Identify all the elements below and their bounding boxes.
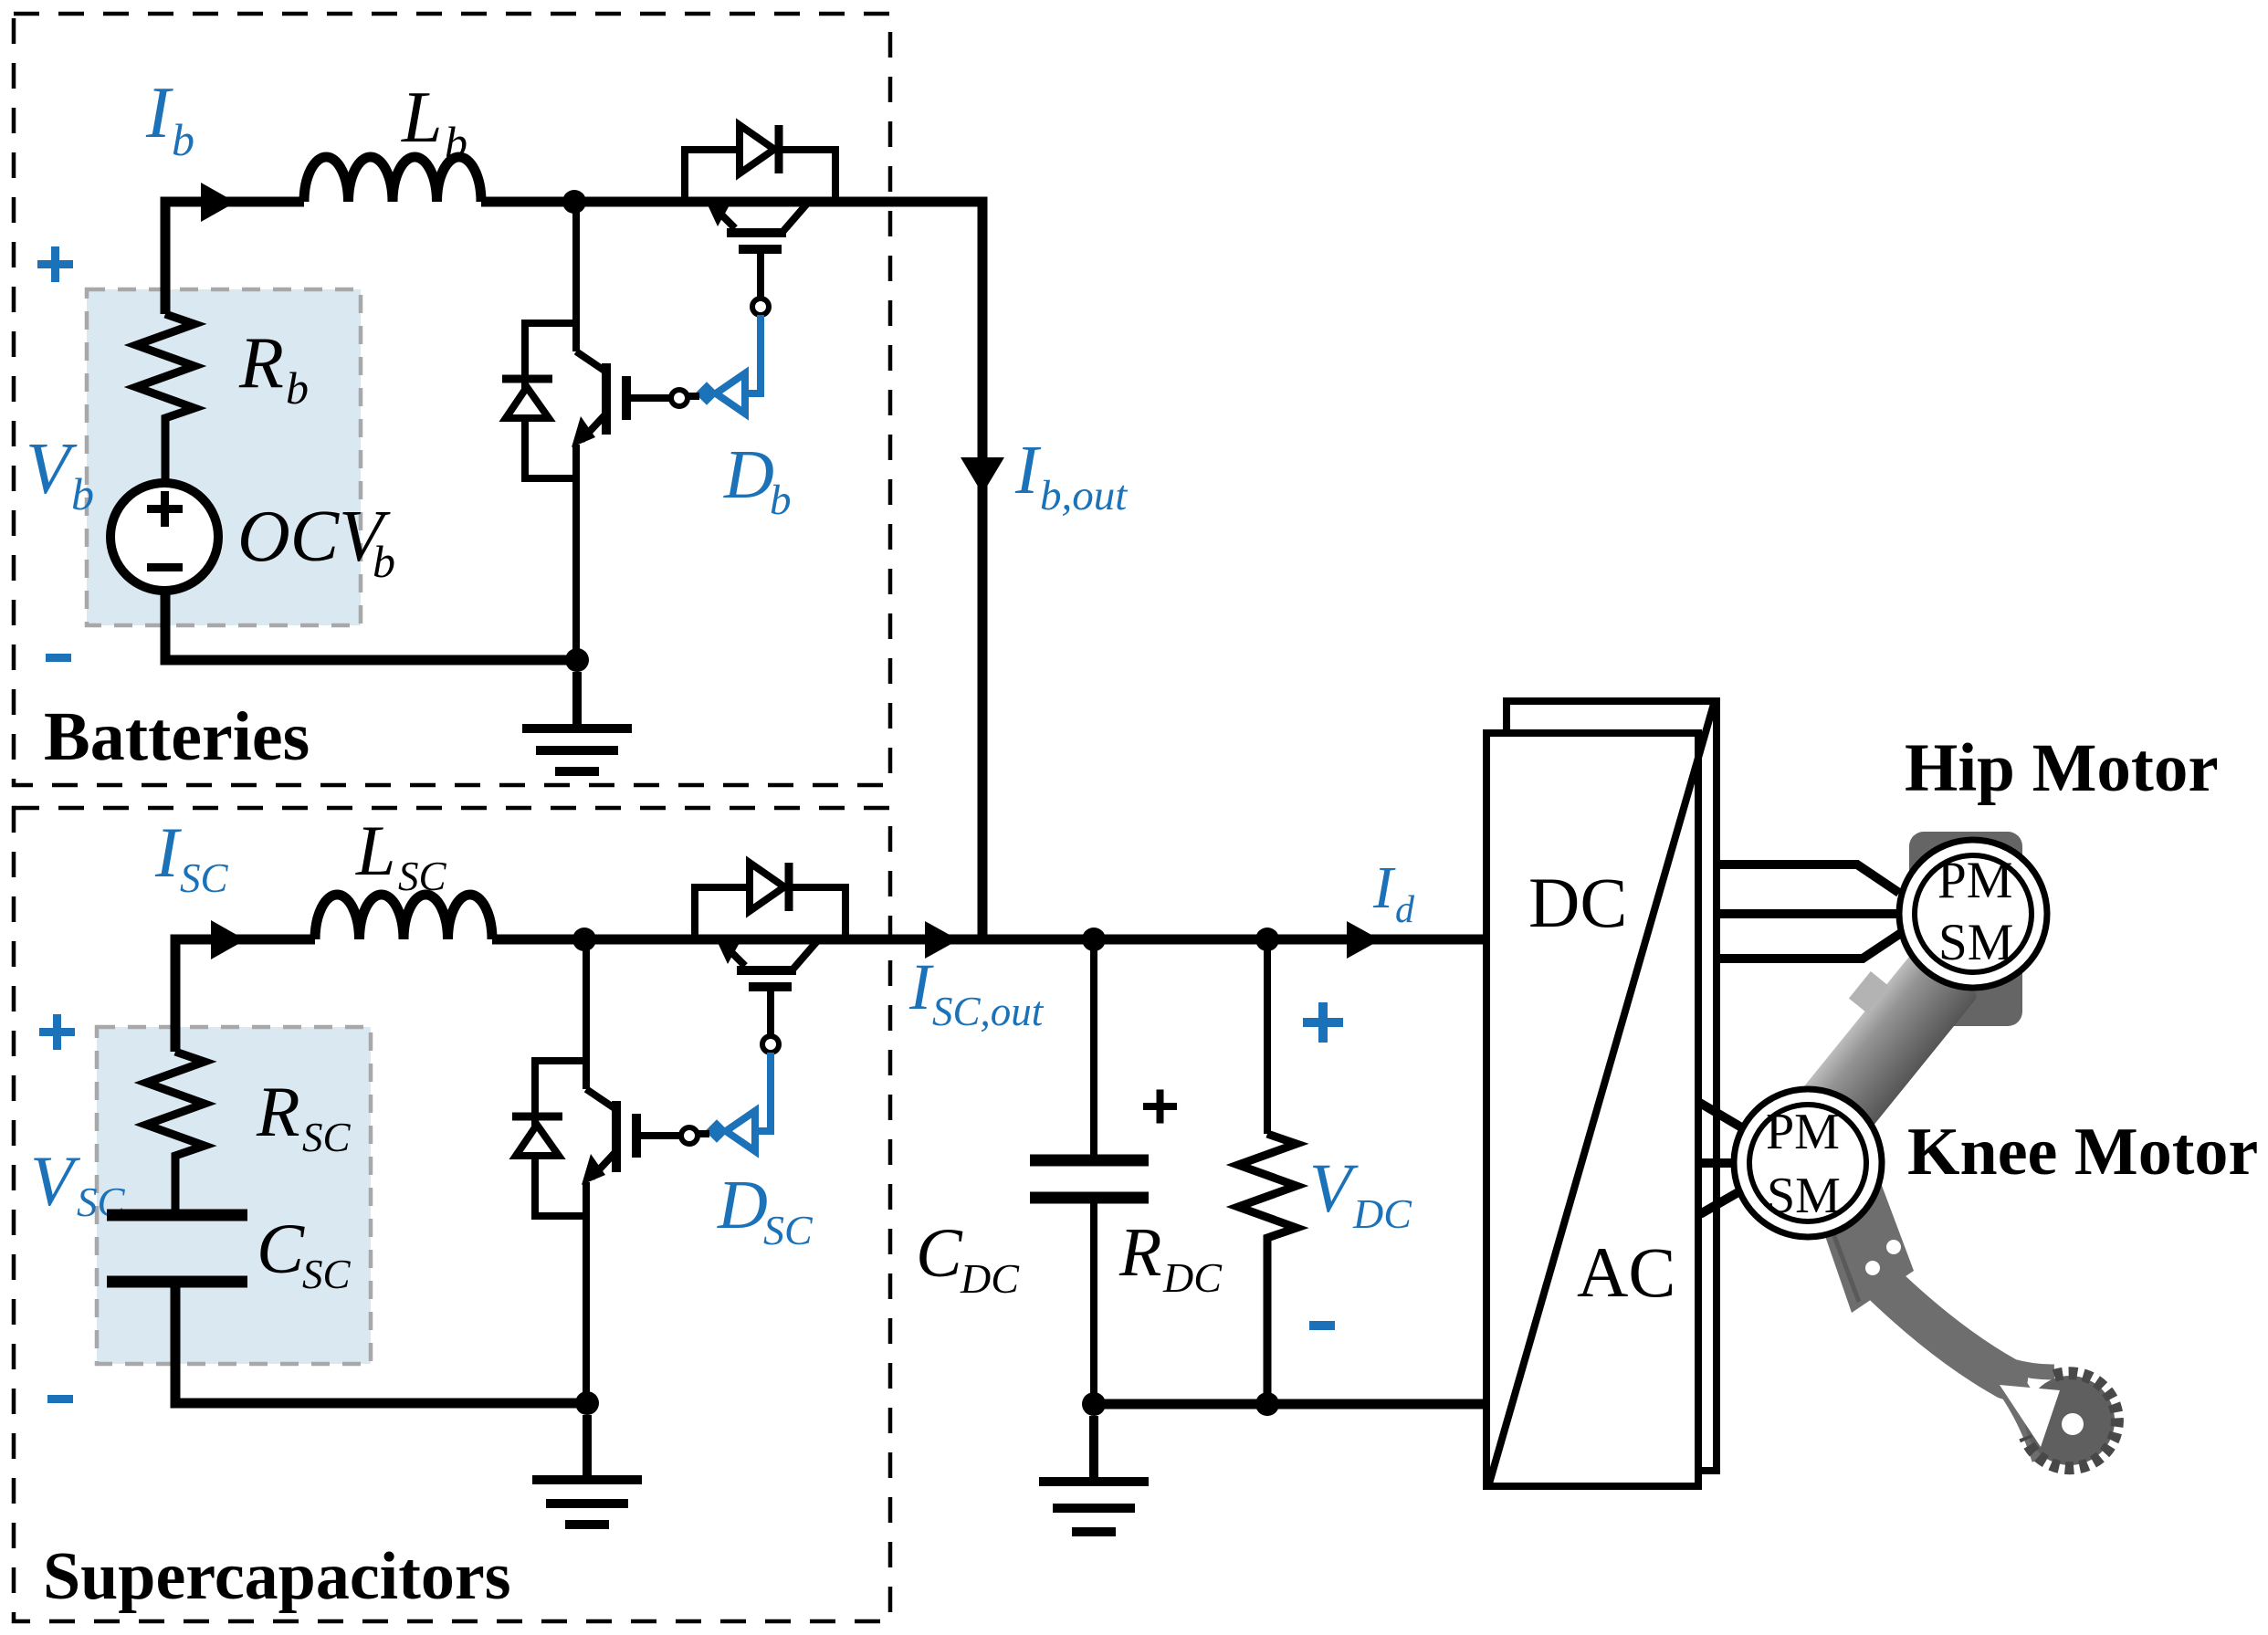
svg-text:C: C: [257, 1209, 305, 1288]
wire inverter to hip phase C: [1717, 933, 1901, 959]
SECTION: motors: [1698, 730, 2258, 1468]
wire supercap left and top: [175, 939, 315, 1052]
svg-text:b: b: [71, 468, 94, 519]
SECTION: supercapacitors: [14, 808, 890, 1621]
wire bus to R_DC: [1264, 939, 1271, 1134]
svg-text:b: b: [445, 117, 467, 168]
inductor L_SC: [315, 895, 492, 939]
shank seam: [1826, 1214, 1859, 1302]
svg-text:V: V: [1309, 1150, 1359, 1227]
svg-text:b: b: [770, 477, 792, 524]
arrow I_b,out: [961, 457, 1004, 494]
svg-text:SC,out: SC,out: [932, 989, 1045, 1034]
svg-text:SM: SM: [1767, 1168, 1841, 1224]
label - (V_DC negative): [1309, 1321, 1335, 1330]
svg-text:V: V: [30, 1141, 81, 1221]
svg-text:DC: DC: [1352, 1190, 1412, 1237]
voltage source OCV_b: [110, 483, 218, 591]
foot triangular cutout: [2000, 1385, 2060, 1447]
emitter arrow of Q_SC': [715, 937, 740, 964]
arrow I_SC,out: [925, 921, 959, 959]
svg-text:DC: DC: [960, 1255, 1020, 1302]
wire Q_b emitter to bottom node: [572, 445, 580, 660]
wire inverter to hip phase A: [1717, 865, 1899, 893]
hip motor housing: [1909, 832, 2022, 1026]
wire inverter to knee phase A: [1698, 1102, 1743, 1128]
node return C_DC: [1082, 1392, 1106, 1416]
label + (supercap positive): [39, 1014, 75, 1050]
gate terminal circle of Q_SC: [681, 1127, 698, 1144]
thigh side tab: [1849, 971, 1889, 1013]
label - (supercap negative): [47, 1395, 73, 1403]
svg-text:SC: SC: [180, 855, 229, 901]
svg-text:C: C: [916, 1215, 963, 1292]
foot serrated rim: [2025, 1373, 2117, 1468]
wire C_DC to bottom rail: [1090, 1198, 1097, 1404]
resistor R_DC: [1238, 1134, 1297, 1404]
gate drive signal D_SC blue wire and inverter: [698, 1053, 771, 1151]
transistor Q_b' upper IGBT (rotated): [713, 204, 807, 299]
capacitor C_SC: [107, 1215, 247, 1282]
svg-text:V: V: [26, 429, 78, 509]
wire inductor to node: [481, 197, 835, 207]
arrow I_d: [1347, 921, 1381, 959]
SECTION: dcbus: [835, 202, 1486, 1532]
node supercap top junction: [572, 928, 596, 951]
battery model shaded box: [87, 289, 361, 625]
gate terminal circle of Q_SC': [762, 1036, 779, 1053]
DC return rail: [1094, 1399, 1486, 1410]
svg-text:Knee Motor: Knee Motor: [1907, 1115, 2258, 1190]
wire node to lower IGBT collector: [572, 206, 580, 351]
wire inverter to knee phase C: [1700, 1190, 1743, 1214]
free-wheel diode of Q_SC': [695, 863, 845, 939]
wire node to lower IGBT collector (supercap): [583, 944, 590, 1089]
svg-text:I: I: [145, 73, 173, 153]
supercapacitor model shaded box: [97, 1027, 371, 1364]
svg-text:I: I: [1372, 854, 1396, 921]
foot disc: [2025, 1376, 2115, 1465]
shin blade lower wedge: [2005, 1377, 2046, 1458]
label + (battery positive): [37, 246, 73, 282]
shank screw hole 2: [1886, 1240, 1901, 1254]
hip motor inner circle: [1915, 855, 2032, 972]
wire bus to C_DC: [1090, 939, 1097, 1155]
gate terminal circle of Q_b: [671, 390, 688, 406]
inverter diagonal divider: [1489, 704, 1714, 1483]
svg-text:SC: SC: [302, 1115, 352, 1160]
svg-text:D: D: [717, 1167, 768, 1243]
SECTION: batteries: [14, 14, 890, 785]
svg-text:OCV: OCV: [237, 497, 391, 577]
emitter arrow of Q_b: [572, 416, 595, 447]
node supercap bottom junction: [575, 1391, 599, 1415]
hip motor outer circle: [1899, 840, 2047, 988]
shin blade: [1877, 1278, 2007, 1378]
node bus R_DC top: [1255, 928, 1279, 951]
SECTION: inverter: [1486, 701, 1717, 1486]
transistor Q_SC lower IGBT: [586, 1089, 681, 1178]
gate terminal circle of Q_b': [752, 299, 769, 315]
node battery bottom junction: [565, 648, 589, 672]
svg-text:Batteries: Batteries: [44, 698, 310, 775]
transistor Q_b lower IGBT: [576, 351, 671, 440]
wire inductor to supercap node: [492, 935, 845, 945]
svg-text:L: L: [355, 811, 395, 890]
svg-text:L: L: [401, 78, 443, 158]
inverter front panel: [1486, 733, 1698, 1486]
svg-text:b: b: [373, 536, 395, 587]
arrow current I_SC: [211, 920, 246, 959]
emitter arrow of Q_b': [705, 199, 730, 226]
svg-text:I: I: [908, 950, 934, 1023]
node battery top junction: [562, 190, 586, 214]
capacitor C_DC: [1030, 1160, 1149, 1198]
wire battery output to bus: [835, 202, 982, 939]
svg-text:PM: PM: [1937, 852, 2012, 909]
svg-text:I: I: [1014, 432, 1042, 508]
svg-text:PM: PM: [1766, 1104, 1840, 1160]
inductor L_b: [304, 157, 481, 202]
foot bridge upper: [1954, 1342, 2054, 1372]
svg-text:AC: AC: [1577, 1232, 1675, 1312]
free-wheel diode of Q_b': [685, 125, 835, 202]
foot axle hole: [2062, 1413, 2084, 1435]
svg-text:Hip Motor: Hip Motor: [1905, 730, 2219, 806]
label + (C_DC polarity): [1143, 1090, 1177, 1124]
svg-text:SC: SC: [302, 1252, 352, 1297]
svg-text:SM: SM: [1938, 914, 2013, 971]
DC bus wire: [845, 935, 1486, 945]
svg-text:R: R: [1118, 1214, 1161, 1291]
svg-text:SC: SC: [398, 854, 447, 899]
resistor R_b: [136, 314, 194, 482]
svg-text:R: R: [256, 1072, 300, 1151]
node bus C_DC top: [1082, 928, 1106, 951]
svg-text:DC: DC: [1528, 863, 1627, 942]
svg-text:D: D: [723, 436, 774, 513]
Supercapacitors enclosure dashed box: [14, 808, 890, 1621]
gate drive signal D_b blue wire and inverter: [688, 315, 761, 414]
inverter back panel: [1507, 701, 1717, 1471]
svg-text:b,out: b,out: [1040, 472, 1128, 519]
svg-text:b: b: [172, 114, 194, 165]
anti-parallel diode of Q_SC: [512, 1061, 586, 1216]
Batteries enclosure dashed box: [14, 14, 890, 785]
svg-text:b: b: [286, 362, 309, 414]
thigh link: [1786, 946, 1979, 1158]
node return R_DC: [1255, 1392, 1279, 1416]
svg-text:d: d: [1395, 889, 1415, 931]
arrow current I_b: [201, 183, 236, 222]
transistor Q_SC' upper IGBT (rotated): [723, 941, 817, 1036]
shank upper segment: [1817, 1183, 1914, 1313]
svg-text:I: I: [154, 812, 183, 892]
svg-text:SC: SC: [763, 1207, 814, 1253]
knee motor outer circle: [1734, 1089, 1882, 1237]
ground supercapacitor: [532, 1415, 642, 1525]
wire capacitor to bottom: [175, 1282, 587, 1403]
anti-parallel diode of Q_b: [502, 323, 576, 478]
knee motor inner circle: [1749, 1105, 1866, 1221]
wire Q_SC emitter to bottom node: [583, 1182, 590, 1403]
emitter arrow of Q_SC: [582, 1154, 605, 1185]
ground DC link: [1039, 1416, 1149, 1532]
wire battery left and top: [165, 202, 304, 314]
svg-text:Supercapacitors: Supercapacitors: [43, 1539, 511, 1614]
label + (V_DC polarity): [1303, 1002, 1343, 1043]
shank screw hole 1: [1865, 1261, 1880, 1275]
wire inverter to knee phase B: [1698, 1158, 1734, 1168]
svg-text:R: R: [238, 323, 284, 404]
label - (battery negative): [46, 654, 71, 662]
wire inverter to hip phase B: [1717, 909, 1897, 918]
ground battery: [522, 672, 632, 771]
wire source to bottom: [165, 588, 577, 660]
resistor R_SC: [146, 1052, 205, 1215]
svg-text:DC: DC: [1162, 1254, 1223, 1301]
